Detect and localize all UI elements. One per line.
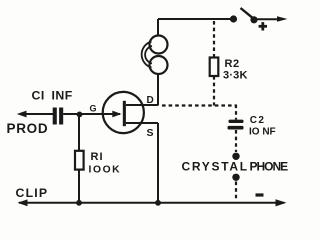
dashed wire drain to C2 horizontal	[162, 104, 236, 106]
node junction dot gate	[77, 112, 83, 118]
dashed wire R2 bottom	[213, 76, 215, 106]
inductor L1 coil bottom loop	[150, 56, 168, 74]
node junction dot bottom R1	[76, 200, 82, 206]
node CLIP arrow	[18, 199, 28, 206]
node minus sign	[256, 193, 264, 196]
transistor Q1 gate arrow	[112, 111, 121, 118]
svg-text:C2: C2	[250, 115, 266, 126]
wire gate right of C1	[63, 113, 120, 115]
node plus sign	[259, 25, 267, 28]
inductor L1 left arcs	[142, 42, 152, 68]
svg-text:R2: R2	[225, 58, 240, 70]
wire top horizontal	[158, 18, 234, 20]
switch S1 pole dot	[230, 15, 237, 22]
node junction dot bottom source	[155, 200, 161, 206]
wire drain horizontal	[126, 104, 158, 106]
switch lever	[241, 8, 253, 18]
node PROD arrow	[17, 111, 27, 118]
capacitor C2 plates	[229, 120, 244, 123]
wire source vertical	[157, 123, 159, 203]
switch S1 throw dot	[250, 16, 257, 23]
node crystal phone bottom dot	[232, 174, 239, 181]
wire source horizontal	[126, 122, 158, 124]
wire gate left of C1	[20, 113, 53, 115]
wire coil top stub	[157, 19, 159, 36]
transistor Q1 body circle	[103, 92, 144, 133]
wire bottom horizontal	[19, 202, 284, 204]
capacitor C1 plates	[53, 108, 57, 125]
svg-text:INF: INF	[52, 89, 73, 103]
svg-text:S: S	[147, 127, 154, 139]
resistor R1 body	[75, 151, 84, 170]
svg-text:CLIP: CLIP	[16, 186, 49, 200]
svg-text:CI: CI	[32, 89, 45, 103]
node plus arrow	[277, 16, 288, 22]
svg-text:IOOK: IOOK	[89, 165, 122, 176]
dashed wire C2 vertical top	[235, 105, 237, 120]
svg-text:G: G	[90, 104, 97, 114]
dashed wire C2 to dot	[235, 130, 237, 152]
wire R1 top	[78, 114, 80, 151]
dashed wire phone dot to bottom	[235, 182, 237, 200]
node crystal phone top dot	[232, 153, 239, 160]
transistor Q1 channel bar	[123, 101, 126, 126]
inductor L1 coil top loop	[150, 36, 168, 54]
node minus arrow	[276, 199, 287, 206]
wire switch output	[254, 18, 278, 20]
svg-text:IO NF: IO NF	[249, 126, 276, 137]
resistor R2 body	[210, 58, 219, 77]
dashed wire R2 top	[213, 21, 215, 58]
svg-text:PROD: PROD	[7, 121, 49, 136]
svg-text:RI: RI	[91, 151, 104, 163]
svg-text:D: D	[147, 95, 154, 106]
svg-text:CRYSTAL: CRYSTAL	[182, 160, 249, 174]
wire R1 bottom	[78, 170, 80, 204]
wire coil bottom stub	[157, 74, 159, 106]
svg-text:3·3K: 3·3K	[223, 69, 248, 81]
svg-text:PHONE: PHONE	[250, 160, 289, 174]
